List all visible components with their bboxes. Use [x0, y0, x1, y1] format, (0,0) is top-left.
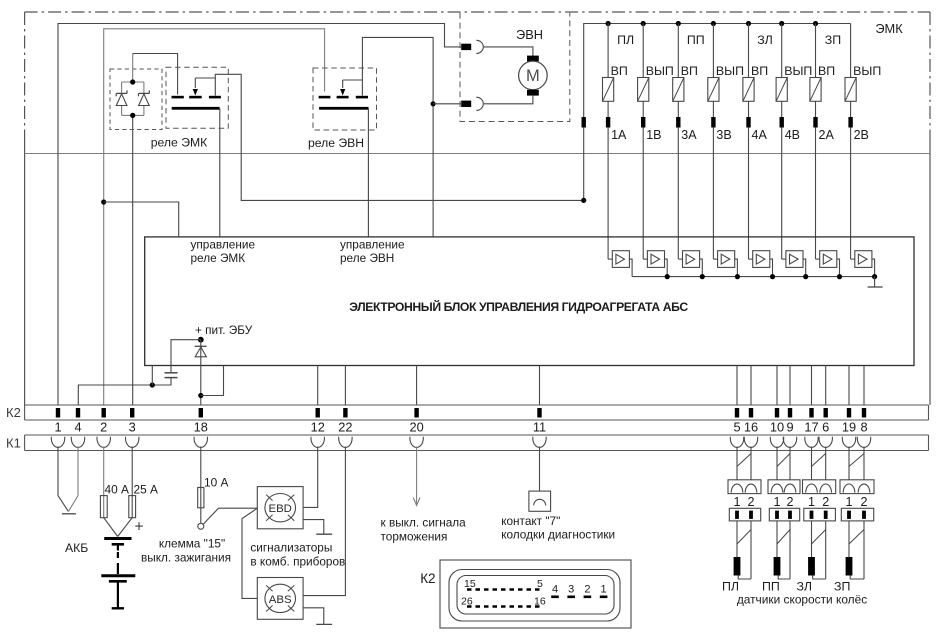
svg-text:реле ЭМК: реле ЭМК	[151, 136, 208, 150]
connector: sensor ПП plug lower	[769, 508, 799, 521]
connector socket: K1 pin 5	[730, 437, 743, 448]
node: ECU ground stub junction	[150, 382, 155, 387]
connector socket: K1 pin 20	[410, 437, 423, 448]
label: sensor ЗП pins 1 2	[845, 495, 867, 509]
connector pin: K2 pin 5	[735, 408, 739, 418]
connector pin: 3А	[676, 117, 680, 128]
svg-text:реле ЭМК: реле ЭМК	[191, 251, 246, 265]
wire: ECU to K2 pin at x=849	[848, 366, 850, 406]
svg-text:2В: 2В	[854, 128, 869, 142]
connector socket: K1 pin 1	[51, 437, 64, 448]
connector pin: K2 pin 10	[775, 408, 779, 418]
wire: K2 pin 3 column to suppression diodes	[132, 115, 134, 405]
wire: pin 18 column through zener	[200, 340, 202, 405]
battery GB1	[101, 539, 135, 609]
connector pin: EVN motor +	[461, 44, 471, 50]
connector: sensor ЗЛ plug lower	[804, 508, 836, 521]
node: valve bus tap 4	[711, 21, 716, 26]
wire: valve column 3В	[712, 24, 714, 260]
connector: sensor ПП plug upper	[768, 480, 800, 494]
svg-text:ПЛ: ПЛ	[617, 33, 634, 47]
wire: valve column 4В	[781, 24, 783, 260]
wire: pin 3 to fuse 25A	[131, 447, 133, 518]
svg-text:2: 2	[100, 420, 107, 435]
svg-text:управление: управление	[340, 238, 405, 252]
diode box VD1 VD2 (dashed)	[110, 69, 162, 130]
connector pin: EVN motor -	[461, 101, 471, 107]
connector socket: K1 pin 3	[126, 437, 139, 448]
svg-text:торможения: торможения	[381, 530, 448, 544]
op-amp driver D3	[683, 251, 700, 268]
wire: valve column 1А	[607, 24, 609, 260]
svg-text:ПЛ: ПЛ	[722, 580, 739, 594]
svg-text:5: 5	[733, 420, 740, 435]
op-amp driver D4	[718, 251, 735, 268]
diode VD2 (zener)	[139, 90, 150, 105]
transistor VT1 (EMK relay MOSFET)	[172, 78, 221, 110]
solenoid valve coil ВП 4А	[743, 78, 754, 102]
label: sensor ПЛ pins 1 2	[733, 495, 754, 509]
connector K2 band	[25, 405, 929, 420]
diag pins row 15-5	[464, 578, 543, 590]
node: bus junction D3	[700, 274, 705, 279]
wire: diode pair internal loop	[122, 54, 144, 116]
op-amp driver D1	[612, 251, 629, 268]
node: diode top junction	[130, 79, 135, 84]
svg-text:17: 17	[804, 420, 818, 435]
svg-text:16: 16	[744, 420, 758, 435]
svg-text:10 А: 10 А	[204, 476, 229, 490]
connector pin: K2 pin 1	[56, 408, 60, 418]
wire: driver D1 input	[608, 258, 612, 260]
wire: lamp supply link EBD to ABS	[242, 508, 257, 598]
connector socket: K1 pin 2	[97, 437, 110, 448]
wire: diode top to EMK mosfet drain	[133, 54, 178, 95]
motor M1 terminal top	[527, 56, 539, 62]
label: kontakt 7	[501, 514, 615, 542]
sensor ПП (wheel speed)	[774, 557, 781, 576]
svg-text:ПП: ПП	[762, 580, 780, 594]
op-amp driver D6	[786, 251, 803, 268]
svg-text:ЗЛ: ЗЛ	[797, 580, 812, 594]
svg-text:1В: 1В	[646, 128, 661, 142]
svg-text:ABS: ABS	[269, 594, 292, 606]
wire: ECU to K2 pin at x=825.7	[825, 366, 827, 406]
wire: to motor top terminal	[484, 47, 533, 56]
svg-text:6: 6	[822, 420, 829, 435]
wire: driver D8 output to bus	[872, 259, 875, 277]
svg-text:2: 2	[747, 495, 754, 509]
wire: EVN bulk tie	[343, 79, 363, 81]
svg-text:ЭВН: ЭВН	[516, 27, 543, 42]
svg-text:8: 8	[860, 420, 867, 435]
motor M1	[519, 61, 548, 90]
wire: pin 4 to chassis	[68, 447, 78, 512]
connector pin: K2 pin 4	[76, 408, 80, 418]
connector pin: 2А	[813, 117, 817, 128]
svg-text:К1: К1	[6, 436, 21, 451]
connector socket: K1 pin 11	[533, 437, 546, 448]
svg-text:1: 1	[54, 420, 61, 435]
svg-text:1: 1	[808, 495, 815, 509]
connector pin: K2 pin 20	[414, 408, 418, 418]
wire: EVN gate to ECU	[367, 108, 369, 237]
fuse F1 40A	[100, 496, 107, 518]
solenoid valve coil ВЫП 1В	[638, 78, 649, 102]
svg-text:20: 20	[409, 420, 423, 435]
hydro-unit boundary: top dash-dot border	[25, 11, 930, 13]
connector socket: K1 pin 6	[819, 437, 832, 448]
svg-text:4А: 4А	[752, 128, 768, 142]
wire: ECU to K2 pin at x=737	[736, 366, 738, 406]
svg-text:ВП: ВП	[751, 64, 768, 78]
wire: ground return line across unit	[25, 153, 930, 155]
connector socket: K1 pin 16	[744, 437, 757, 448]
svg-text:ЭМК: ЭМК	[875, 21, 903, 36]
solenoid valve coil ВЫП 4В	[776, 78, 787, 102]
wire: EVN source to motor low pin and ECU	[362, 37, 433, 237]
connector socket arc lower	[476, 97, 483, 110]
wire: ECU to K2 pin at x=777	[776, 366, 778, 406]
svg-text:22: 22	[338, 420, 352, 435]
wire: ECU ground stub	[151, 366, 153, 386]
wire: ECU to K2 pin at x=539.5	[539, 366, 541, 406]
wire: sensor ЗЛ harness lower	[812, 521, 826, 579]
indicator lamp EBD box	[257, 487, 303, 529]
wire: EMK bulk tie	[195, 77, 215, 79]
transistor VT2 (EVN relay MOSFET)	[319, 80, 369, 110]
wire: motor bottom terminal out	[484, 96, 533, 104]
wire: pin2 branch to ECU	[104, 202, 179, 237]
solenoid valve coil ВП 3А	[673, 78, 684, 102]
label: klemma 15	[141, 537, 231, 565]
connector socket: K1 pin 17	[805, 437, 818, 448]
connector pin: 1В	[641, 117, 645, 128]
node: valve bus tap 2	[641, 21, 646, 26]
svg-text:4В: 4В	[785, 128, 800, 142]
node: valve bus tap 6	[779, 21, 784, 26]
svg-text:ЗЛ: ЗЛ	[757, 33, 772, 47]
svg-text:1: 1	[773, 495, 780, 509]
diagnostic connector K2 outline	[440, 560, 631, 628]
wire: K2 pin 1 up-left column to EVN feed	[58, 24, 461, 406]
svg-text:2А: 2А	[819, 128, 835, 142]
svg-text:управление: управление	[191, 238, 256, 252]
svg-text:реле ЭВН: реле ЭВН	[308, 136, 364, 150]
node: bus junction D7	[837, 274, 842, 279]
connector pin: 4В	[780, 117, 784, 128]
connector pin: K2 pin 11	[537, 408, 541, 418]
ground: driver bus	[868, 277, 883, 287]
wire: sensor ПП harness lower	[777, 521, 790, 579]
svg-text:контакт "7": контакт "7"	[501, 514, 560, 528]
svg-text:клемма "15": клемма "15"	[159, 537, 225, 551]
connector: sensor ПЛ plug lower	[729, 508, 760, 521]
connector pin: 4А	[746, 117, 750, 128]
wire: driver D7 input	[816, 258, 820, 260]
svg-text:2: 2	[860, 495, 867, 509]
svg-text:10: 10	[770, 420, 784, 435]
node: valve feed junction on supply line	[581, 198, 586, 203]
node: valve bus tap 8	[0, 0, 1, 1]
solenoid valve coil ВЫП 3В	[708, 78, 719, 102]
node: bus junction D6	[803, 274, 808, 279]
svg-text:19: 19	[842, 420, 856, 435]
wire: driver D3 output to bus	[700, 259, 703, 277]
label: sensor ЗЛ pins 1 2	[808, 495, 829, 509]
wire: driver D5 input	[749, 258, 753, 260]
relay EMK box (dashed)	[166, 67, 228, 128]
svg-text:ВЫП: ВЫП	[646, 64, 674, 78]
connector pin: 1А	[606, 117, 610, 128]
svg-text:11: 11	[533, 420, 546, 435]
svg-text:4: 4	[74, 420, 81, 435]
svg-text:4: 4	[552, 584, 558, 596]
relay EVN box (dashed)	[313, 68, 377, 130]
svg-text:к выкл. сигнала: к выкл. сигнала	[381, 516, 467, 530]
svg-text:2: 2	[822, 495, 829, 509]
wire: sensor ЗЛ harness upper	[812, 447, 826, 480]
svg-text:выкл. зажигания: выкл. зажигания	[141, 551, 231, 565]
svg-text:ВЫП: ВЫП	[716, 64, 744, 78]
wire: sensor ЗЛ return	[813, 576, 826, 580]
sensor ПЛ (wheel speed)	[734, 557, 741, 576]
fuse F2 25A	[129, 496, 136, 518]
wire: K2 pin 11 to diag contact	[539, 447, 541, 492]
wire: EMK gate to ECU	[219, 108, 221, 237]
svg-text:3В: 3В	[716, 128, 731, 142]
hydro-unit boundary: right border	[929, 12, 931, 405]
svg-text:ПП: ПП	[687, 33, 705, 47]
wire: driver D8 input	[851, 258, 855, 260]
wire: driver D6 output to bus	[803, 259, 806, 277]
motor M1 terminal bottom	[527, 90, 539, 96]
wire: terminal 15 to EBD lamp	[203, 508, 257, 524]
chassis ground bar	[62, 513, 76, 515]
svg-text:колодки диагностики: колодки диагностики	[501, 528, 615, 542]
connector: sensor ЗП plug upper	[840, 480, 874, 494]
wire: K2 pin 2 column to EVN relay drain	[104, 29, 325, 405]
svg-text:ВЫП: ВЫП	[853, 64, 881, 78]
svg-text:в комб. приборов: в комб. приборов	[250, 555, 345, 569]
wire: sensor ЗП harness lower	[849, 521, 864, 579]
wire: K2 pin 22 to ABS	[303, 447, 345, 596]
wire: sensor ПЛ harness lower	[737, 521, 751, 579]
diode VD1 (zener)	[116, 90, 127, 105]
wire: valve column 2В	[850, 24, 852, 260]
diode VD3 (EBU supply)	[195, 346, 207, 357]
connector pin: K2 pin 6	[824, 408, 828, 418]
wire: valve column 4А	[748, 24, 750, 260]
node: valve bus tap 3	[676, 21, 681, 26]
svg-text:реле ЭВН: реле ЭВН	[340, 251, 394, 265]
connector pin: K2 pin 3	[130, 408, 134, 418]
connector pin: 3В	[711, 117, 715, 128]
svg-text:1: 1	[601, 584, 607, 596]
indicator lamp ABS	[265, 584, 296, 612]
wire: ECU to K2 pin at x=317.7	[317, 366, 319, 406]
connector: sensor ЗП plug lower	[841, 508, 873, 521]
wire: driver D4 input	[713, 258, 717, 260]
connector pin: 2В	[848, 117, 852, 128]
connector pin: K2 pin 19	[847, 408, 851, 418]
wire: valve column 3А	[677, 24, 679, 260]
svg-text:ВП: ВП	[611, 64, 628, 78]
hydro-unit boundary: left border	[24, 12, 26, 405]
connector socket: K1 pin 19	[842, 437, 855, 448]
connector socket arc upper	[476, 40, 483, 53]
wire: fuses to battery plus	[104, 518, 133, 537]
sensor ЗЛ (wheel speed)	[808, 557, 815, 576]
fuse F3 10A	[198, 488, 204, 508]
wire: K2 pin 12 to EBD	[303, 447, 318, 508]
svg-text:18: 18	[194, 420, 208, 435]
ground: EBD lamp	[303, 520, 332, 535]
connector socket: K1 pin 18	[194, 437, 207, 448]
connector pin: K2 pin 18	[199, 408, 203, 418]
svg-text:40 А: 40 А	[105, 483, 130, 497]
svg-text:+ пит. ЭБУ: + пит. ЭБУ	[195, 323, 253, 337]
node: pin 18 lower junction	[198, 393, 203, 398]
connector pin: K2 pin 22	[343, 408, 347, 418]
wire: driver D2 output to bus	[665, 259, 668, 277]
wire: driver D2 input	[643, 258, 647, 260]
node: EBU supply junction	[198, 337, 204, 343]
svg-text:2: 2	[786, 495, 793, 509]
wire: sensor ЗП harness upper	[849, 447, 864, 480]
connector socket: K1 pin 22	[339, 437, 352, 448]
indicator lamp ABS box	[257, 578, 303, 620]
connector socket: K1 pin 4	[71, 437, 84, 448]
svg-text:сигнализаторы: сигнализаторы	[250, 541, 332, 555]
EVN pump motor box (dashed)	[460, 13, 570, 122]
wire: sensor ЗП return	[850, 576, 864, 580]
wire: pin 2 to fuse 40A	[103, 447, 105, 518]
wire: ECU to K2 pin at x=790	[789, 366, 791, 406]
connector pin: K2 pin 16	[749, 408, 753, 418]
connector socket: K1 pin 10	[770, 437, 783, 448]
wire: sensor ПП harness upper	[777, 447, 790, 480]
label: upravlenie rele EVN	[340, 238, 405, 266]
svg-text:ЗП: ЗП	[834, 580, 850, 594]
wire: driver D5 output to bus	[770, 259, 773, 277]
connector pin: K2 pin 8	[862, 408, 866, 418]
svg-text:3А: 3А	[681, 128, 697, 142]
op-amp driver D8	[855, 251, 872, 268]
wire: ECU to K2 pin at x=416.6	[416, 366, 418, 406]
wire: ECU to K2 pin at x=345.4	[344, 366, 346, 406]
label: signalizatory	[250, 541, 345, 569]
wire: pin18 branch into ECU	[201, 366, 224, 396]
svg-text:ЗП: ЗП	[825, 33, 841, 47]
connector pin: K2 pin 17	[809, 408, 813, 418]
node: bus junction D2	[665, 274, 670, 279]
node: valve bus tap 7	[813, 21, 818, 26]
svg-text:АКБ: АКБ	[65, 541, 88, 555]
diag contact 7 box	[529, 491, 551, 511]
op-amp driver D7	[820, 251, 837, 268]
wire: valve column 2А	[815, 24, 817, 260]
wire: motor low to EVN source column	[433, 103, 461, 105]
wire: K2 pin 20 to brake switch (arrow)	[413, 447, 420, 506]
svg-text:1: 1	[733, 495, 740, 509]
svg-text:К2: К2	[420, 571, 435, 586]
wire: EMK source up-over-down to valve feed line	[215, 74, 583, 200]
wire: driver D1 output to bus	[629, 259, 632, 277]
svg-text:датчики скорости колёс: датчики скорости колёс	[737, 593, 867, 607]
wire: valve column 1В	[642, 24, 644, 260]
svg-text:2: 2	[584, 584, 590, 596]
solenoid valve coil ВП 2А	[810, 78, 821, 102]
ECU box: electronic control unit	[145, 237, 914, 366]
svg-text:3: 3	[568, 584, 574, 596]
node: bus junction D4	[735, 274, 740, 279]
labels: sensor names	[722, 580, 850, 594]
op-amp driver D5	[753, 251, 770, 268]
solenoid valve coil ВЫП 2В	[845, 78, 856, 102]
wire: ECU to K2 pin at x=864	[863, 366, 865, 406]
label: sensor ПП pins 1 2	[773, 495, 793, 509]
connector pin: K2 pin 9	[788, 408, 792, 418]
svg-text:ВП: ВП	[681, 64, 698, 78]
solenoid valve coil ВП 1А	[603, 78, 614, 102]
node: pin2 branch junction	[101, 199, 106, 204]
node: diode bottom junction	[130, 113, 135, 118]
label: upravlenie rele EMK	[191, 238, 256, 266]
terminal 15 circle	[198, 523, 204, 529]
ground: ABS lamp	[303, 608, 332, 625]
wire: capacitor to ground trace	[78, 378, 171, 405]
diag pins row 26-16	[461, 596, 546, 608]
svg-text:ВЫП: ВЫП	[784, 64, 812, 78]
svg-text:К2: К2	[6, 405, 21, 420]
wire: driver D4 output to bus	[735, 259, 738, 277]
svg-text:ВП: ВП	[818, 64, 835, 78]
connector socket: K1 pin 12	[311, 437, 324, 448]
node: valve bus tap 1	[606, 21, 611, 26]
wire: pin 18 to fuse 10A	[200, 447, 202, 524]
node: bus junction D8	[872, 274, 877, 279]
connector pin: K2 pin 12	[316, 408, 320, 418]
svg-text:12: 12	[311, 420, 325, 435]
connector socket: K1 pin 8	[857, 437, 870, 448]
node: bus junction D5	[770, 274, 775, 279]
svg-text:EBD: EBD	[268, 503, 291, 515]
connector socket: K1 pin 9	[783, 437, 796, 448]
wire: sensor ПЛ harness upper	[737, 447, 751, 480]
connector pin: valve feed	[582, 117, 586, 128]
wire: ECU to K2 pin at x=811.5	[811, 366, 813, 406]
op-amp driver D2	[647, 251, 664, 268]
indicator lamp EBD	[265, 494, 296, 522]
wire: driver D3 input	[678, 258, 682, 260]
wire: driver output bus	[632, 276, 875, 278]
svg-text:+: +	[135, 519, 144, 536]
svg-text:25 А: 25 А	[134, 483, 159, 497]
wire: driver D7 output to bus	[837, 259, 840, 277]
svg-text:1: 1	[845, 495, 852, 509]
wire: ECU to K2 pin at x=751	[750, 366, 752, 406]
wire: EBU supply to capacitor	[171, 340, 201, 373]
wire: valve supply bus from EMK relay	[584, 24, 851, 201]
node: valve bus tap 5	[746, 21, 751, 26]
connector K1 band	[25, 435, 929, 451]
svg-text:9: 9	[786, 420, 793, 435]
connector: sensor ЗЛ plug upper	[803, 480, 836, 494]
wire: pin 1 to chassis	[58, 447, 68, 512]
diag pins 4 3 2 1	[551, 584, 607, 597]
wire: sensor ПЛ return	[738, 576, 751, 580]
